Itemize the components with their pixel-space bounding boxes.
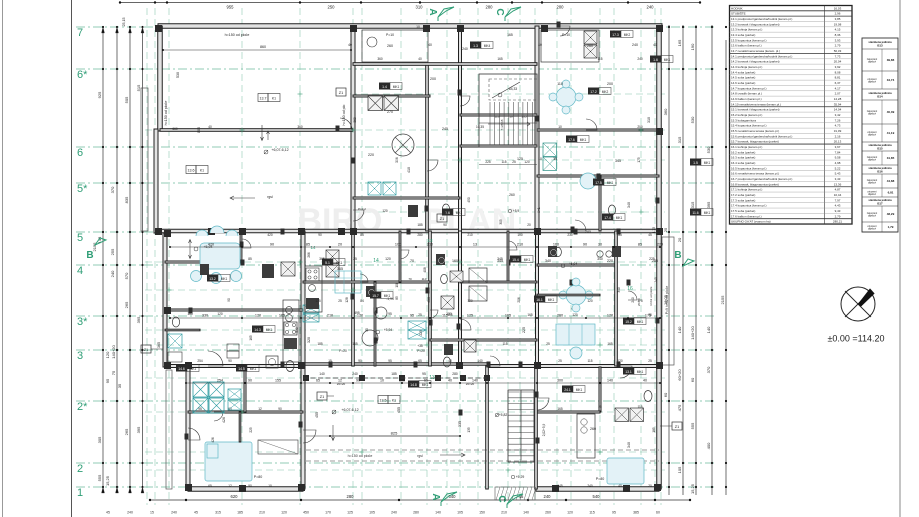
svg-text:K1: K1 — [200, 169, 204, 173]
svg-text:13,36: 13,36 — [834, 182, 842, 186]
svg-text:Z1: Z1 — [339, 91, 343, 95]
upper room direction arrow — [261, 125, 264, 141]
svg-text:40: 40 — [348, 43, 352, 47]
svg-text:260: 260 — [387, 44, 393, 48]
svg-text:±0.00 =114.20: ±0.00 =114.20 — [827, 334, 884, 344]
svg-text:3,42: 3,42 — [835, 113, 841, 117]
svg-text:13: 13 — [429, 375, 435, 381]
bottom-left unit partition y412 — [188, 411, 303, 413]
svg-text:13.5: 13.5 — [380, 399, 387, 403]
svg-text:305: 305 — [499, 219, 503, 225]
round table with cross (hall) — [392, 134, 414, 156]
svg-text:B14: B14 — [877, 94, 883, 98]
svg-text:h=150 od ploče: h=150 od ploče — [164, 101, 168, 126]
svg-text:14.3: 14.3 — [254, 328, 261, 332]
svg-text:95: 95 — [198, 407, 202, 411]
svg-text:7,84: 7,84 — [835, 150, 841, 154]
svg-text:39,86: 39,86 — [887, 58, 895, 62]
svg-text:20×20: 20×20 — [337, 382, 346, 386]
svg-text:5.1: 5.1 — [325, 261, 330, 265]
svg-text:240: 240 — [654, 277, 658, 283]
svg-text:140: 140 — [319, 372, 325, 376]
svg-text:dijelovi: dijelovi — [868, 227, 876, 231]
middle partition y340 center-right — [430, 339, 537, 341]
building outer wall left mid — [154, 129, 158, 233]
svg-text:206: 206 — [517, 297, 521, 303]
stair flight above (dashed) — [489, 79, 537, 100]
svg-text:10,35: 10,35 — [476, 125, 484, 129]
svg-text:140: 140 — [607, 379, 613, 383]
svg-text:2,96: 2,96 — [835, 12, 841, 16]
partition x400 middle upper — [399, 231, 401, 282]
svg-text:105: 105 — [369, 511, 375, 515]
svg-text:260: 260 — [590, 427, 596, 431]
svg-text:155: 155 — [275, 379, 281, 383]
svg-text:120: 120 — [385, 257, 391, 261]
svg-text:B16: B16 — [877, 169, 883, 173]
svg-text:225: 225 — [419, 330, 423, 336]
svg-text:dijelovi: dijelovi — [868, 158, 876, 162]
svg-text:1.5: 1.5 — [693, 161, 698, 165]
svg-text:25,15: 25,15 — [122, 18, 126, 27]
svg-text:210: 210 — [467, 233, 473, 237]
green plus marks at grid intersections — [240, 129, 245, 131]
partition y295 middle-right — [537, 294, 600, 296]
dim line 825 terrace — [306, 435, 460, 437]
svg-text:P=9 h=42 od ploče: P=9 h=42 od ploče — [665, 286, 669, 315]
svg-text:5,22: 5,22 — [835, 166, 841, 170]
svg-text:12: 12 — [338, 379, 342, 383]
svg-text:455: 455 — [397, 407, 401, 413]
svg-text:MK4: MK4 — [484, 44, 491, 48]
svg-text:335: 335 — [458, 421, 462, 427]
svg-text:450: 450 — [303, 511, 309, 515]
center unit island/bed rect — [335, 271, 361, 293]
svg-text:4,43: 4,43 — [835, 204, 841, 208]
svg-text:14.1 predprostor/garderoba/ho: 14.1 predprostor/garderoba/hodnik (keram… — [731, 54, 792, 58]
middle-right wall x616 — [615, 231, 618, 366]
svg-text:210: 210 — [501, 511, 507, 515]
table right summary column — [862, 38, 898, 232]
svg-text:25: 25 — [663, 227, 668, 232]
svg-text:530: 530 — [176, 72, 180, 78]
staircase bottom core — [508, 390, 534, 462]
svg-text:13.5 kupaonica (keram.pl.): 13.5 kupaonica (keram.pl.) — [731, 38, 767, 42]
svg-text:MK2: MK2 — [602, 90, 609, 94]
svg-text:15.7: 15.7 — [372, 294, 379, 298]
svg-text:530: 530 — [295, 327, 299, 333]
center unit kitchen column — [305, 266, 322, 312]
svg-text:115: 115 — [501, 160, 506, 164]
svg-text:260: 260 — [587, 44, 593, 48]
center unit washer pair teal — [408, 321, 426, 330]
svg-text:3,85: 3,85 — [835, 17, 841, 21]
svg-text:MK1: MK1 — [190, 367, 197, 371]
svg-text:MK1: MK1 — [637, 370, 644, 374]
interior wall y366 center segment — [303, 363, 487, 365]
door swing arcs — [340, 118, 352, 130]
svg-text:3,67: 3,67 — [835, 145, 841, 149]
svg-text:200: 200 — [430, 77, 436, 81]
svg-text:420: 420 — [208, 243, 214, 247]
svg-text:30: 30 — [365, 328, 369, 332]
svg-text:90: 90 — [583, 243, 587, 247]
svg-text:120: 120 — [357, 314, 363, 318]
svg-text:120: 120 — [524, 160, 530, 164]
right dimension line 3 — [695, 25, 697, 495]
svg-text:MK1: MK1 — [221, 277, 228, 281]
right dimension line 1 — [668, 25, 670, 495]
svg-text:15,25: 15,25 — [105, 475, 110, 486]
svg-text:40: 40 — [653, 43, 657, 47]
svg-text:14,28: 14,28 — [834, 97, 842, 101]
svg-text:34,74: 34,74 — [887, 78, 895, 82]
svg-text:260: 260 — [545, 511, 551, 515]
svg-text:140: 140 — [472, 379, 478, 383]
svg-text:210: 210 — [517, 243, 523, 247]
svg-text:MK1: MK1 — [250, 367, 257, 371]
stair core wall y115 — [460, 114, 537, 116]
svg-text:+35: +35 — [417, 344, 423, 348]
svg-text:P=20: P=20 — [417, 349, 425, 353]
svg-text:4: 4 — [77, 265, 83, 277]
svg-text:280: 280 — [486, 4, 494, 9]
svg-text:90: 90 — [248, 484, 252, 488]
svg-text:280: 280 — [347, 494, 355, 499]
svg-text:20×20: 20×20 — [466, 382, 475, 386]
svg-text:65: 65 — [316, 379, 320, 383]
svg-text:6,37: 6,37 — [835, 81, 841, 85]
svg-text:165: 165 — [607, 342, 613, 346]
bed bottom-right unit — [607, 458, 644, 484]
svg-text:5,43: 5,43 — [835, 172, 841, 176]
right dimension line 4 — [711, 25, 713, 495]
svg-text:220: 220 — [657, 243, 663, 247]
svg-text:3*: 3* — [77, 316, 88, 328]
svg-text:385: 385 — [633, 511, 639, 515]
staircase top core — [479, 74, 537, 147]
svg-text:540: 540 — [449, 494, 457, 499]
svg-text:140+20: 140+20 — [690, 326, 695, 340]
svg-text:365: 365 — [157, 342, 161, 348]
sheet right border — [899, 0, 901, 517]
kitchen hatch squares top-middle — [368, 96, 383, 111]
svg-text:25: 25 — [418, 313, 422, 317]
svg-text:65: 65 — [208, 484, 212, 488]
svg-text:65: 65 — [424, 379, 428, 383]
svg-text:200: 200 — [607, 82, 613, 86]
svg-text:17.6: 17.6 — [568, 138, 575, 142]
svg-text:70: 70 — [408, 277, 412, 281]
svg-text:MK1: MK1 — [704, 161, 711, 165]
svg-text:140: 140 — [706, 326, 711, 333]
svg-text:170: 170 — [325, 511, 331, 515]
svg-text:P=80: P=80 — [596, 477, 605, 481]
svg-text:16.1: 16.1 — [536, 298, 543, 302]
svg-text:P=3,2: P=3,2 — [358, 207, 366, 211]
svg-text:125: 125 — [347, 511, 353, 515]
bottom-right unit partition x600 — [599, 367, 601, 412]
svg-text:530: 530 — [706, 146, 711, 153]
svg-text:3,92: 3,92 — [835, 65, 841, 69]
svg-text:14.4 soba (parket): 14.4 soba (parket) — [731, 70, 755, 74]
svg-text:10: 10 — [538, 157, 542, 161]
svg-text:210: 210 — [259, 511, 265, 515]
svg-text:h=150 od ploče: h=150 od ploče — [225, 33, 250, 37]
svg-text:306: 306 — [395, 157, 399, 163]
svg-text:125: 125 — [467, 314, 473, 318]
svg-text:2,79: 2,79 — [835, 44, 841, 48]
svg-text:1,75: 1,75 — [652, 227, 656, 233]
svg-text:60: 60 — [656, 511, 660, 515]
svg-text:370: 370 — [706, 366, 711, 373]
svg-text:dijelovi: dijelovi — [868, 192, 876, 196]
svg-text:85: 85 — [360, 233, 364, 237]
svg-text:P=80: P=80 — [254, 475, 263, 479]
svg-text:40: 40 — [418, 57, 422, 61]
svg-text:70: 70 — [410, 259, 414, 263]
svg-text:120: 120 — [607, 314, 613, 318]
svg-text:A: A — [427, 8, 438, 15]
horizontal wall y198 top band — [353, 197, 460, 199]
svg-text:9,43: 9,43 — [835, 209, 841, 213]
svg-text:115: 115 — [589, 511, 595, 515]
svg-text:+5,94: +5,94 — [569, 262, 578, 266]
svg-text:14: 14 — [373, 258, 379, 264]
svg-text:dijelovi: dijelovi — [868, 80, 876, 84]
svg-text:MK1: MK1 — [266, 328, 273, 332]
svg-text:2,79: 2,79 — [835, 214, 841, 218]
svg-text:84: 84 — [360, 299, 364, 303]
balcony top-right small — [541, 30, 599, 62]
svg-text:240: 240 — [127, 511, 133, 515]
svg-text:120: 120 — [217, 312, 223, 316]
sofa middle-right unit — [556, 324, 595, 345]
svg-text:280: 280 — [417, 233, 423, 237]
svg-text:3,93: 3,93 — [835, 38, 841, 42]
svg-text:25: 25 — [648, 359, 652, 363]
marker box Z1 mid — [437, 214, 447, 222]
svg-text:330: 330 — [202, 314, 208, 318]
svg-text:85: 85 — [248, 257, 252, 261]
svg-text:20: 20 — [677, 237, 682, 242]
svg-text:16.1 kuhinja (keram.pl.): 16.1 kuhinja (keram.pl.) — [731, 145, 762, 149]
svg-text:17.3: 17.3 — [612, 33, 619, 37]
svg-text:85: 85 — [306, 243, 310, 247]
svg-text:+6,07-6,12: +6,07-6,12 — [341, 408, 358, 412]
svg-text:rgsl: rgsl — [267, 195, 273, 199]
svg-text:15.5 nenatkrivena terasa (ker: 15.5 nenatkrivena terasa (keram.pl.) — [731, 129, 779, 133]
top-right bath partition x600 — [599, 176, 601, 231]
marker box Z1 terrace — [317, 392, 327, 400]
svg-text:14.8 izvadik (keram.pl.): 14.8 izvadik (keram.pl.) — [731, 92, 762, 96]
svg-text:360: 360 — [663, 108, 668, 115]
scatter door arcs extra — [242, 239, 251, 248]
svg-text:14.8: 14.8 — [410, 383, 417, 387]
svg-text:24.1: 24.1 — [564, 388, 571, 392]
svg-text:13.2 boravak i blagovaonica (: 13.2 boravak i blagovaonica (parket) — [731, 22, 780, 26]
svg-text:50,33: 50,33 — [834, 49, 842, 53]
vertical wall x460 top band — [459, 26, 462, 231]
svg-text:4,98: 4,98 — [835, 161, 841, 165]
svg-text:240: 240 — [171, 511, 177, 515]
svg-text:115: 115 — [442, 314, 448, 318]
svg-text:25: 25 — [338, 299, 342, 303]
svg-text:dijelovi: dijelovi — [868, 112, 876, 116]
middle partition y262 left unit — [165, 261, 241, 263]
middle-right bath fixtures top strip — [555, 247, 562, 256]
stair core wall y146 — [460, 145, 537, 147]
svg-text:B17: B17 — [877, 201, 883, 205]
svg-text:240: 240 — [632, 43, 638, 47]
marker box Z1 left-mid — [141, 345, 151, 353]
stair core bottom vertical x487 — [486, 366, 489, 489]
svg-text:15.4 kupaonica (keram.pl.): 15.4 kupaonica (keram.pl.) — [731, 124, 767, 128]
svg-text:9=1: 9=1 — [537, 207, 541, 213]
partition y282 left of stair — [460, 281, 537, 283]
svg-text:95: 95 — [388, 312, 392, 316]
svg-text:31,85: 31,85 — [887, 156, 895, 160]
washer circles middle — [369, 290, 375, 296]
svg-text:145: 145 — [557, 484, 563, 488]
svg-text:426: 426 — [211, 437, 215, 443]
svg-text:140: 140 — [677, 326, 682, 333]
svg-text:17.5: 17.5 — [595, 181, 602, 185]
svg-text:40: 40 — [538, 43, 542, 47]
svg-text:165: 165 — [677, 39, 682, 46]
svg-text:555: 555 — [690, 422, 695, 429]
svg-text:17.1 kuhinja (keram.pl.): 17.1 kuhinja (keram.pl.) — [731, 188, 762, 192]
svg-text:13: 13 — [473, 243, 477, 247]
svg-text:8,08: 8,08 — [835, 70, 841, 74]
building outer wall top — [158, 24, 662, 29]
svg-text:HODNIK: HODNIK — [731, 6, 743, 10]
svg-text:100: 100 — [517, 233, 523, 237]
svg-text:285: 285 — [585, 230, 591, 234]
svg-text:14: 14 — [310, 245, 316, 250]
bottom-left bath partition x245 — [244, 367, 246, 412]
svg-text:MK1: MK1 — [422, 383, 429, 387]
interior main wall: middle band bottom — [165, 365, 303, 368]
bed bottom-left unit — [205, 442, 252, 481]
svg-text:48,29: 48,29 — [887, 212, 895, 216]
right dimension line 2 — [682, 25, 684, 495]
svg-text:115: 115 — [587, 359, 592, 363]
bottom dimension ticks — [149, 499, 151, 501]
kitchen bottom-right unit counter — [577, 414, 595, 458]
svg-text:Z1: Z1 — [440, 217, 444, 221]
svg-text:dijelovi: dijelovi — [868, 181, 876, 185]
svg-text:1.6: 1.6 — [653, 58, 658, 62]
svg-text:K1: K1 — [272, 97, 276, 101]
svg-text:15.4: 15.4 — [512, 258, 519, 262]
svg-text:14.3 kuhinja (keram.pl.): 14.3 kuhinja (keram.pl.) — [731, 65, 762, 69]
svg-text:140: 140 — [435, 511, 441, 515]
svg-text:240: 240 — [647, 4, 655, 9]
svg-text:MK1: MK1 — [664, 58, 671, 62]
svg-text:95: 95 — [388, 359, 392, 363]
svg-text:16.5 kupaonica (keram.pl.): 16.5 kupaonica (keram.pl.) — [731, 166, 767, 170]
partition y330 middle-left — [165, 329, 200, 331]
svg-text:35,94: 35,94 — [834, 102, 842, 106]
svg-text:265: 265 — [124, 301, 129, 308]
svg-text:60: 60 — [690, 377, 695, 382]
svg-text:185: 185 — [391, 372, 397, 376]
marker box Z1 right — [672, 422, 682, 430]
svg-text:175: 175 — [637, 157, 641, 163]
small round table middle-right — [570, 347, 582, 359]
kitchen counter middle-left unit — [281, 262, 295, 276]
svg-text:165: 165 — [507, 33, 513, 37]
svg-text:2,02+5,9: 2,02+5,9 — [542, 424, 546, 437]
svg-text:STUBIŠTE: STUBIŠTE — [731, 11, 746, 16]
svg-text:340: 340 — [597, 257, 603, 261]
svg-text:16.7 predprostor/garderoba/ho: 16.7 predprostor/garderoba/hodnik (keram… — [731, 177, 792, 181]
svg-text:254: 254 — [217, 379, 223, 383]
svg-text:305: 305 — [97, 436, 102, 443]
svg-text:60: 60 — [663, 392, 668, 397]
svg-text:95: 95 — [105, 378, 110, 383]
svg-text:4,73: 4,73 — [835, 124, 841, 128]
svg-text:-1,94: -1,94 — [386, 297, 393, 301]
svg-text:266: 266 — [307, 252, 311, 258]
svg-text:17.4: 17.4 — [604, 216, 611, 220]
svg-text:C: C — [494, 8, 505, 15]
svg-text:17.5 soba (parket): 17.5 soba (parket) — [731, 209, 755, 213]
svg-text:h=150 od ploče: h=150 od ploče — [348, 454, 373, 458]
svg-text:280: 280 — [452, 372, 458, 376]
svg-text:90: 90 — [356, 379, 360, 383]
bath top-middle fixtures — [368, 182, 381, 195]
svg-text:165: 165 — [527, 313, 533, 317]
svg-text:255: 255 — [110, 248, 115, 255]
svg-text:1,79: 1,79 — [888, 225, 894, 229]
svg-text:14.6 soba (parket): 14.6 soba (parket) — [731, 81, 755, 85]
building bottom wall right unit — [536, 487, 659, 492]
svg-text:410: 410 — [407, 167, 411, 173]
major vertical wall x353 top band — [351, 26, 355, 231]
middle band vertical x537 — [536, 231, 539, 366]
right dimension line 5 — [725, 40, 727, 495]
svg-text:240: 240 — [544, 494, 552, 499]
svg-text:90: 90 — [443, 223, 447, 227]
svg-text:408: 408 — [423, 267, 427, 273]
svg-text:P=10: P=10 — [386, 33, 394, 37]
svg-text:90: 90 — [228, 359, 232, 363]
svg-text:240: 240 — [110, 270, 115, 277]
svg-text:115: 115 — [597, 57, 602, 61]
svg-text:dijelovi: dijelovi — [868, 214, 876, 218]
svg-text:395: 395 — [136, 316, 141, 323]
sofa group top-left middle unit — [196, 230, 208, 236]
balcony top-left small — [362, 30, 428, 62]
svg-text:360: 360 — [353, 117, 357, 123]
terrace railing left lower — [166, 370, 172, 489]
area summary table — [730, 6, 853, 225]
left dimension ticks — [102, 26, 104, 28]
hatch square pair x333 y252 — [326, 250, 339, 263]
level marker +6.07-6.12 terrace — [332, 410, 336, 414]
svg-text:19,08: 19,08 — [834, 22, 842, 26]
svg-text:230: 230 — [567, 233, 573, 237]
svg-text:40: 40 — [208, 125, 212, 129]
svg-text:260: 260 — [509, 193, 515, 197]
svg-text:165: 165 — [505, 314, 511, 318]
svg-text:2*: 2* — [77, 401, 88, 413]
svg-text:+5,9: +5,9 — [513, 209, 520, 213]
svg-text:17.2: 17.2 — [590, 90, 597, 94]
room label boxes (MK labels) — [258, 94, 268, 102]
